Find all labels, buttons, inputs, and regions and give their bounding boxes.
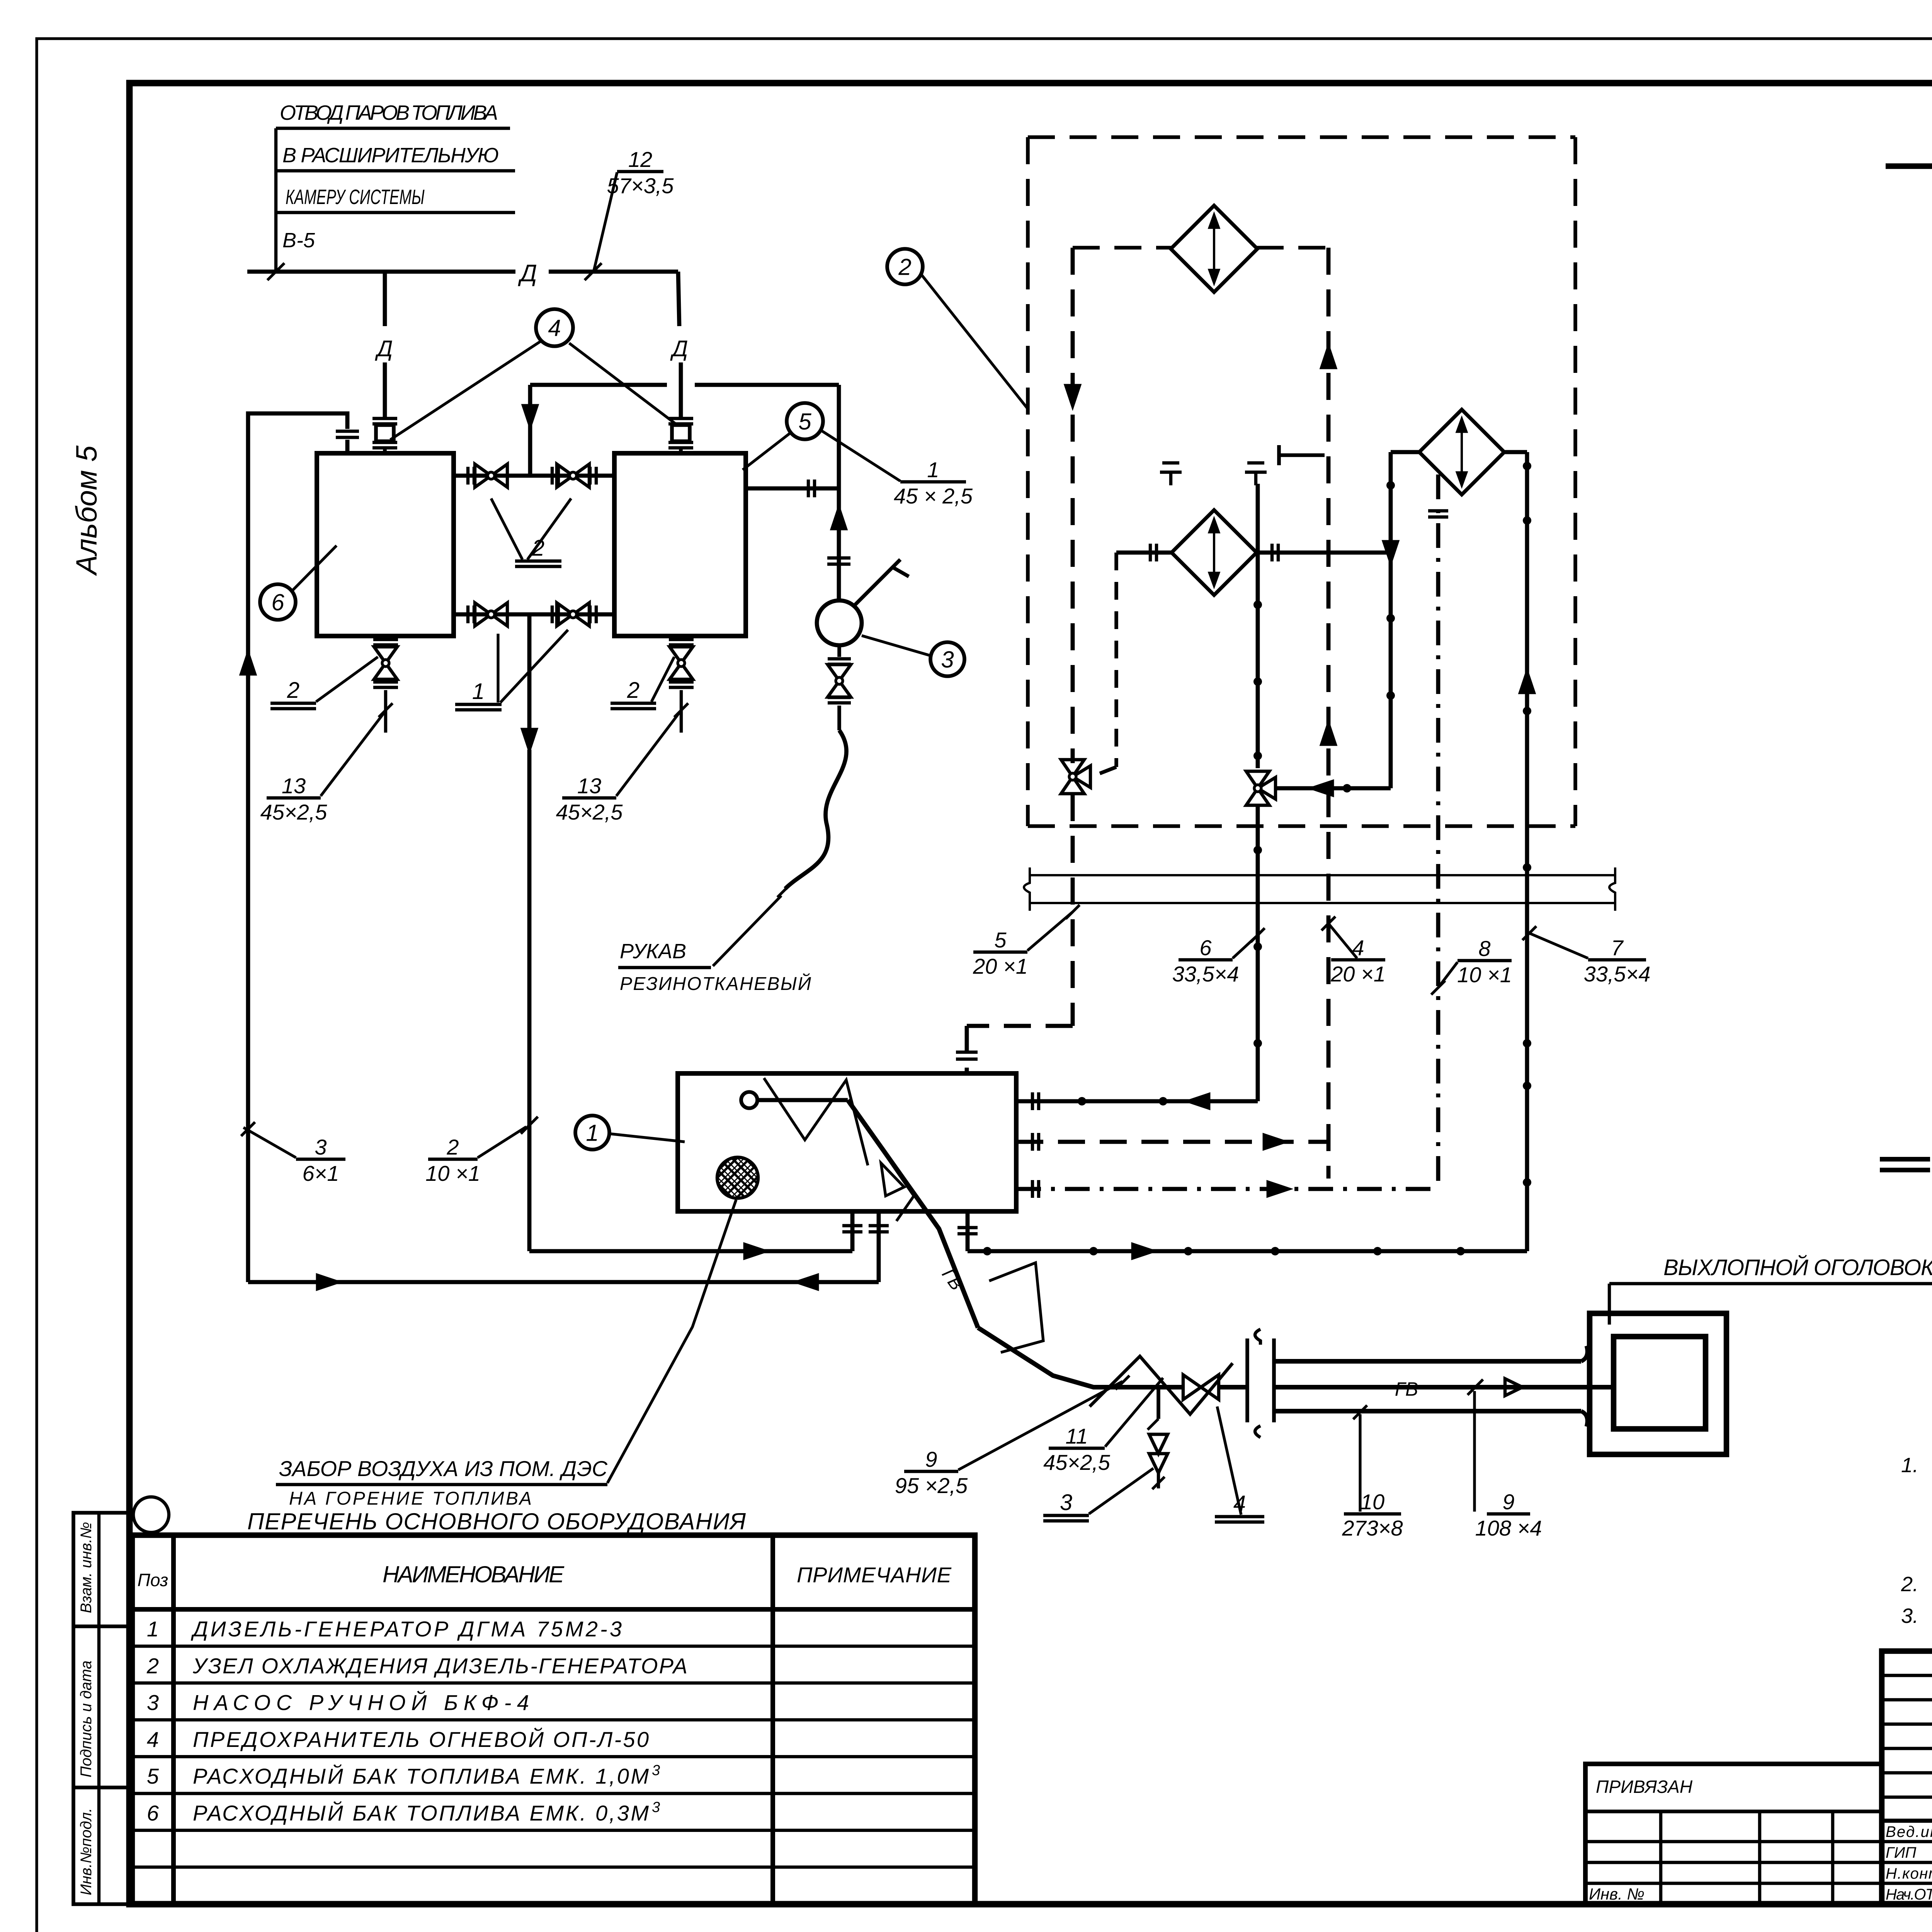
callout circle 2	[887, 249, 923, 284]
flex horizontal section to valve	[1140, 1385, 1183, 1389]
generator circle	[741, 1092, 757, 1108]
svg-text:11: 11	[1065, 1424, 1088, 1448]
steam line v3 long dash	[1327, 248, 1331, 1179]
callout circle 6	[260, 584, 296, 620]
title block main outline	[1882, 1651, 1932, 1904]
svg-text:2: 2	[446, 1135, 459, 1159]
svg-text:45×2,5: 45×2,5	[260, 800, 328, 824]
wire: leader 5	[1027, 912, 1073, 951]
upper valve row between tanks y=1231	[454, 474, 614, 478]
drain valve triangles	[1149, 1434, 1168, 1454]
inline valve on GV line	[1183, 1375, 1201, 1400]
svg-text:2.: 2.	[1901, 1573, 1918, 1596]
svg-text:13: 13	[577, 774, 601, 798]
svg-text:3: 3	[652, 1762, 660, 1779]
svg-text:ГИП: ГИП	[1886, 1844, 1917, 1861]
water line v5 solid	[1525, 452, 1529, 1251]
generator zigzag	[764, 1078, 868, 1165]
wire: leader	[316, 657, 378, 702]
wire: leader 10	[1359, 1414, 1361, 1512]
pump outlet valve	[837, 645, 841, 657]
flame arrester on tank B (pos 4)	[668, 417, 693, 420]
v2 lower run	[1256, 806, 1260, 1101]
wire: leader 13	[321, 712, 385, 796]
svg-text:45 × 2,5: 45 × 2,5	[894, 484, 973, 508]
water dashdot line from generator east	[1016, 1187, 1438, 1191]
svg-text:ОТВОД ПАРОВ ТОПЛИВА: ОТВОД ПАРОВ ТОПЛИВА	[280, 101, 498, 124]
svg-text:Нач.ОТЭП: Нач.ОТЭП	[1886, 1886, 1932, 1903]
pipe D drop to tank B vent	[678, 272, 679, 326]
svg-text:ГВ: ГВ	[1395, 1378, 1418, 1400]
left riser with up arrow	[246, 653, 250, 1282]
tank A drain valve	[373, 638, 398, 641]
svg-text:КАМЕРУ СИСТЕМЫ: КАМЕРУ СИСТЕМЫ	[286, 185, 425, 209]
svg-text:7: 7	[1611, 935, 1624, 960]
svg-text:Д: Д	[375, 336, 393, 361]
pipe v2 west into generator	[1016, 1099, 1258, 1104]
svg-text:Вед.инж.: Вед.инж.	[1886, 1823, 1932, 1840]
svg-text:3.: 3.	[1901, 1604, 1918, 1628]
svg-text:3: 3	[652, 1799, 660, 1816]
svg-text:3: 3	[941, 647, 954, 673]
wire: leader 5 to tank B	[743, 433, 791, 470]
svg-text:Д: Д	[518, 260, 537, 287]
generator shaft line	[757, 1098, 848, 1102]
wire: leader 11	[1105, 1378, 1163, 1447]
svg-text:РАСХОДНЫЙ БАК ТОПЛИВА ЕМК: РАСХОДНЫЙ БАК ТОПЛИВА ЕМК. 1,0М	[193, 1764, 649, 1788]
hole punch circle	[133, 1497, 169, 1532]
svg-text:Н.контр.: Н.контр.	[1886, 1865, 1932, 1882]
dashed pipe through D1	[1073, 246, 1172, 250]
svg-text:20 ×1: 20 ×1	[973, 954, 1028, 978]
flexible hose	[785, 730, 847, 889]
exhaust head pipes	[1274, 1359, 1581, 1364]
svg-text:6: 6	[1199, 935, 1212, 960]
svg-text:12: 12	[628, 147, 652, 172]
pipe D3 axis	[1391, 450, 1420, 454]
svg-text:ПРИВЯЗАН: ПРИВЯЗАН	[1596, 1777, 1693, 1797]
wire: leader 13 right	[616, 712, 680, 796]
pipe down from lower row	[527, 614, 532, 733]
water radiator D3	[1419, 410, 1504, 495]
svg-text:Подпись и дата: Подпись и дата	[78, 1660, 95, 1777]
svg-text:ЗАБОР ВОЗДУХА ИЗ ПОМ. ДЭС: ЗАБОР ВОЗДУХА ИЗ ПОМ. ДЭС	[279, 1456, 608, 1481]
table equipment grid	[132, 1535, 975, 1904]
wire: leader 9	[958, 1381, 1122, 1470]
water line v2 solid with dots	[1256, 484, 1260, 768]
exhaust head inner	[1614, 1337, 1706, 1429]
svg-text:1: 1	[586, 1120, 599, 1146]
three-way valve on v1	[1061, 760, 1084, 777]
wire: leader 9-108	[1473, 1391, 1476, 1512]
wire: leader 6	[292, 546, 337, 591]
callout circle 3	[930, 642, 964, 676]
svg-text:4: 4	[548, 315, 561, 341]
left margin boxes	[73, 1513, 128, 1904]
wire: leader 6	[1233, 935, 1258, 958]
capped stub west of v3	[1279, 453, 1325, 457]
svg-text:В РАСШИРИТЕЛЬНУЮ: В РАСШИРИТЕЛЬНУЮ	[282, 144, 499, 167]
svg-text:273×8: 273×8	[1342, 1516, 1403, 1540]
wire: leader 3	[862, 636, 931, 656]
pipe D horizontal	[247, 270, 515, 274]
svg-text:2: 2	[287, 678, 299, 703]
svg-text:45×2,5: 45×2,5	[1043, 1450, 1111, 1475]
svg-text:ВЫХЛОПНОЙ ОГОЛОВОК: ВЫХЛОПНОЙ ОГОЛОВОК	[1663, 1255, 1932, 1280]
air intake hatched circle	[717, 1157, 758, 1198]
svg-text:20 ×1: 20 ×1	[1330, 962, 1386, 986]
stub valve2 east with arrow	[1276, 786, 1391, 791]
wire: leader 2-10x1	[478, 1127, 526, 1158]
svg-text:6: 6	[147, 1801, 159, 1825]
svg-text:2: 2	[627, 678, 639, 703]
wire: leaders label2 to valves	[491, 498, 522, 560]
hand pump pos3 circle	[817, 600, 862, 645]
oil cooler D2	[1172, 510, 1257, 595]
tank A pos6 (left fuel tank)	[317, 453, 454, 636]
svg-text:45×2,5: 45×2,5	[556, 800, 623, 824]
air line L2	[248, 1280, 879, 1284]
drain stub with valves pos3	[1156, 1387, 1160, 1419]
svg-text:3: 3	[147, 1690, 159, 1715]
fuel line east of generator	[966, 1211, 970, 1251]
svg-text:10 ×1: 10 ×1	[1457, 963, 1512, 987]
exhaust head pos10 outer	[1590, 1313, 1726, 1454]
pipe from tank B to hand pump riser	[746, 486, 839, 491]
riser x3599 from D3 axis	[1389, 452, 1393, 788]
wire: leader 7	[1530, 934, 1588, 958]
svg-text:РУКАВ: РУКАВ	[620, 940, 686, 963]
svg-text:НАИМЕНОВАНИЕ: НАИМЕНОВАНИЕ	[383, 1561, 565, 1587]
wire: leader 4	[1217, 1406, 1241, 1515]
callout circle 5	[787, 403, 823, 439]
capped stub above D2 left	[1169, 472, 1172, 485]
svg-text:Поз: Поз	[138, 1570, 168, 1590]
svg-text:ПРИМЕЧАНИЕ: ПРИМЕЧАНИЕ	[797, 1563, 952, 1587]
fuel feed line L1 into generator bottom	[529, 1249, 852, 1253]
svg-text:Д: Д	[670, 336, 688, 361]
three-way valve on v2	[1246, 771, 1269, 788]
wire: leader air intake	[607, 1200, 736, 1483]
water line v4 dash-dot	[1436, 474, 1440, 1186]
svg-text:1: 1	[927, 457, 939, 482]
wire: leader 1 diagonal	[500, 630, 568, 702]
tank B pos5 (right fuel tank)	[614, 453, 746, 636]
pipe from pump to tanks y=996	[530, 383, 667, 387]
wire: leader 4 to left arrester	[390, 342, 540, 440]
table valves title	[1880, 1157, 1930, 1162]
svg-text:ПРЕДОХРАНИТЕЛЬ ОГНЕВОЙ ОП-Л-: ПРЕДОХРАНИТЕЛЬ ОГНЕВОЙ ОП-Л-50	[193, 1727, 649, 1752]
wire: leader 4	[1328, 923, 1357, 958]
cooling unit dashed enclosure pos2	[1028, 135, 1575, 139]
svg-text:4: 4	[147, 1727, 159, 1752]
svg-text:1: 1	[147, 1617, 159, 1641]
flame arrester on tank A (pos 4)	[372, 417, 397, 420]
svg-text:6×1: 6×1	[303, 1161, 339, 1185]
oil radiator D1	[1171, 206, 1257, 292]
wire: leader 4 to right arrester	[569, 343, 676, 424]
table pipelines title	[1886, 163, 1932, 169]
wire: leader 1 vertical	[497, 634, 499, 702]
svg-text:13: 13	[282, 774, 306, 798]
oil line v1 dashed	[1071, 248, 1075, 763]
svg-text:Альбом 5: Альбом 5	[70, 445, 103, 576]
stamp small grid rows	[1882, 1674, 1932, 1677]
svg-text:5: 5	[798, 409, 811, 435]
svg-text:95 ×2,5: 95 ×2,5	[895, 1473, 968, 1498]
oil dashed line from generator east	[1016, 1140, 1328, 1144]
wire: leader 3	[1089, 1468, 1153, 1514]
svg-text:ДИЗЕЛЬ-ГЕНЕРАТОР ДГМА 75М2-3: ДИЗЕЛЬ-ГЕНЕРАТОР ДГМА 75М2-3	[190, 1617, 622, 1641]
wire: note leader vertical	[274, 128, 277, 272]
pump handle	[854, 560, 900, 606]
svg-text:Взам. инв.№: Взам. инв.№	[78, 1522, 95, 1613]
center drop pipe with arrow	[528, 385, 532, 476]
lower valve row y=1590	[454, 612, 614, 617]
wire: leader 1	[609, 1134, 685, 1142]
svg-text:РЕЗИНОТКАНЕВЫЙ: РЕЗИНОТКАНЕВЫЙ	[620, 973, 811, 994]
svg-text:5: 5	[994, 928, 1007, 952]
pump riser	[837, 385, 841, 600]
callout circle 4	[536, 309, 573, 346]
pipe D drop to tank A vent	[383, 272, 387, 326]
wire: leader head	[1608, 1284, 1611, 1325]
left extension grid	[1585, 1764, 1882, 1904]
wire: leader 12	[594, 172, 617, 270]
wall band	[1030, 874, 1615, 876]
svg-text:2: 2	[898, 254, 911, 280]
svg-text:РАСХОДНЫЙ БАК ТОПЛИВА ЕМК.: РАСХОДНЫЙ БАК ТОПЛИВА ЕМК. 0,3М	[193, 1801, 649, 1825]
exhaust diagonal with flex	[848, 1100, 978, 1328]
flex zigzag marks on diagonal	[989, 1263, 1043, 1352]
capped stub above D2 right	[1254, 472, 1257, 485]
svg-text:Инв. №: Инв. №	[1589, 1885, 1645, 1903]
wire: leader 2	[921, 274, 1027, 408]
diesel generator box pos1	[678, 1073, 1016, 1211]
svg-text:5: 5	[147, 1764, 159, 1788]
wire: leader 5 to label 1/45x2,5	[820, 430, 900, 481]
svg-text:В-5: В-5	[282, 229, 315, 252]
svg-text:33,5×4: 33,5×4	[1584, 962, 1651, 986]
svg-text:10: 10	[1361, 1490, 1384, 1514]
wire: leader	[651, 657, 674, 702]
svg-text:ПЕРЕЧЕНЬ ОСНОВНОГО ОБОРУДОВ: ПЕРЕЧЕНЬ ОСНОВНОГО ОБОРУДОВАНИЯ	[247, 1509, 746, 1534]
svg-text:1: 1	[472, 679, 485, 704]
svg-text:9: 9	[1502, 1490, 1514, 1514]
pipe east of D2	[1256, 551, 1391, 555]
svg-text:3: 3	[1060, 1490, 1072, 1515]
wire: leader hose	[713, 896, 781, 966]
svg-text:Инв.№подл.: Инв.№подл.	[78, 1808, 95, 1895]
svg-text:33,5×4: 33,5×4	[1172, 962, 1239, 986]
svg-text:9: 9	[925, 1447, 937, 1471]
svg-text:108 ×4: 108 ×4	[1475, 1516, 1542, 1540]
svg-text:3: 3	[315, 1135, 327, 1159]
dashed riser to valve1	[1114, 553, 1118, 767]
pipe: slop return into tank A	[248, 413, 347, 679]
svg-text:2: 2	[146, 1653, 159, 1678]
svg-text:8: 8	[1478, 936, 1490, 961]
v1 below valve to generator top	[1071, 794, 1075, 1026]
flange assembly double	[1245, 1338, 1249, 1422]
wire: leader 8	[1438, 962, 1458, 988]
callout circle 1	[575, 1116, 609, 1150]
open arrow on diagonal	[881, 1163, 904, 1196]
pipe west of D2	[1116, 551, 1172, 555]
svg-text:1.: 1.	[1901, 1454, 1918, 1477]
wire: leader 3-6x1	[243, 1128, 296, 1158]
tank B drain valve	[669, 638, 694, 641]
svg-text:6: 6	[271, 590, 284, 616]
svg-text:10 ×1: 10 ×1	[425, 1161, 480, 1185]
